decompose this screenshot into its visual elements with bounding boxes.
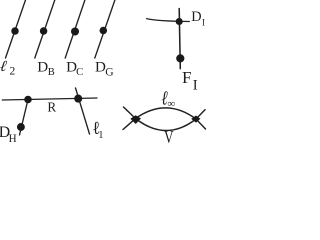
- vertex V left: [130, 115, 141, 124]
- node R right: [74, 95, 82, 103]
- label l2: [0, 58, 10, 75]
- node on DB: [40, 27, 48, 35]
- svg-text:R: R: [47, 99, 56, 114]
- label V: [164, 128, 174, 147]
- svg-text:H: H: [9, 133, 17, 145]
- wire line DG: [95, 0, 115, 58]
- wire line DB: [35, 0, 55, 58]
- svg-text:G: G: [105, 66, 114, 79]
- curve V upper: [123, 108, 206, 130]
- wire line l2: [6, 0, 26, 58]
- wire line DC: [65, 0, 85, 58]
- node on l2: [11, 27, 19, 35]
- wire horizontal DI: [147, 19, 190, 22]
- svg-text:2: 2: [10, 66, 16, 78]
- label l-infinity: [160, 87, 170, 109]
- node DI: [176, 18, 183, 25]
- node FI: [176, 54, 184, 62]
- svg-text:B: B: [48, 67, 55, 78]
- svg-text:D: D: [191, 9, 201, 25]
- wire vertical DI-FI: [179, 9, 180, 69]
- node on DC: [71, 28, 79, 36]
- wire horizontal R: [2, 98, 97, 100]
- label l1: [92, 117, 100, 138]
- svg-text:D: D: [37, 59, 48, 75]
- svg-text:∞: ∞: [167, 98, 175, 110]
- svg-text:I: I: [202, 17, 205, 27]
- wire line l1: [76, 88, 90, 134]
- svg-text:F: F: [182, 68, 192, 87]
- node DH: [17, 123, 25, 131]
- svg-text:I: I: [193, 78, 198, 94]
- svg-text:1: 1: [98, 130, 103, 141]
- curve V lower: [124, 107, 206, 131]
- node R left: [24, 96, 32, 104]
- node on DG: [100, 27, 108, 35]
- vertex V right: [191, 116, 200, 123]
- svg-text:C: C: [76, 66, 83, 78]
- wire line DH: [20, 100, 29, 136]
- svg-text:V: V: [164, 128, 174, 147]
